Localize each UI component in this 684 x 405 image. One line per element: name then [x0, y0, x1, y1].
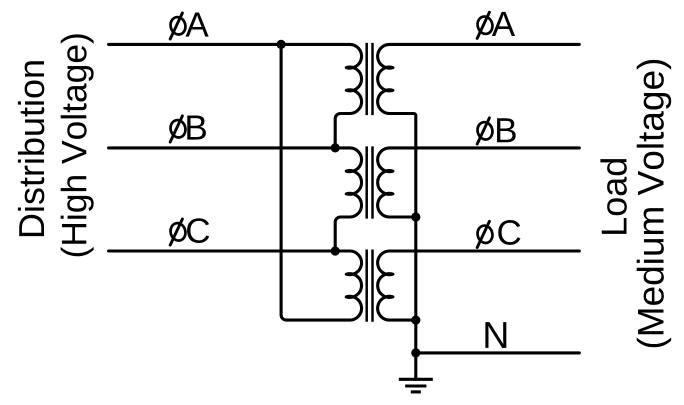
wire phi-C secondary line: [390, 249, 580, 252]
transformer T3 core: [367, 250, 373, 322]
transformer T1 secondary winding: [378, 44, 416, 379]
label phi-A secondary: [476, 12, 515, 38]
label phi-C secondary: [476, 220, 521, 247]
wire phi-A primary line: [109, 43, 350, 46]
label High Voltage: [61, 34, 94, 256]
node phi-C junction: [331, 246, 340, 255]
label Load: [600, 159, 626, 234]
node neutral T3 secondary junction: [411, 316, 420, 325]
label phi-B primary: [169, 116, 206, 142]
label phi-C primary: [169, 218, 210, 245]
wire delta return phi-A to T3 primary bottom: [281, 44, 350, 320]
transformer T1 primary winding: [335, 44, 361, 147]
wire phi-B secondary line: [390, 146, 580, 149]
label phi-B secondary: [476, 118, 516, 144]
wire phi-B primary line: [109, 146, 350, 149]
node phi-A junction: [277, 40, 286, 49]
label Medium Voltage: [637, 60, 671, 347]
label Distribution: [18, 61, 44, 236]
transformer T2 secondary winding: [378, 148, 416, 217]
ground symbol: [399, 379, 433, 392]
transformer T1 core: [367, 43, 373, 115]
transformer T3 secondary winding: [378, 251, 416, 320]
transformer T2 core: [367, 146, 373, 218]
wire phi-C primary line: [109, 249, 350, 252]
node neutral N junction: [411, 348, 420, 357]
label phi-A primary: [169, 13, 209, 39]
node neutral T2 secondary junction: [411, 212, 420, 221]
node phi-B junction: [331, 143, 340, 152]
transformer T3 primary winding: [346, 251, 361, 320]
transformer T2 primary winding: [335, 148, 361, 251]
wire phi-A secondary line: [390, 43, 580, 46]
wire neutral N line: [416, 351, 580, 354]
label neutral N: [485, 322, 506, 348]
